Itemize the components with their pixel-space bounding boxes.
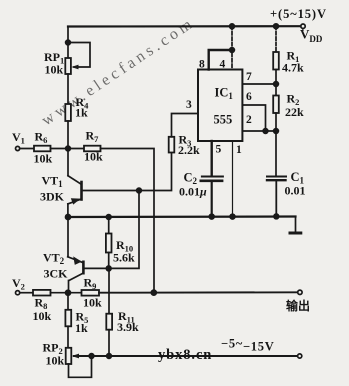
wire R8 to node E2 (51, 292, 82, 294)
svg-text:1: 1 (236, 144, 242, 156)
terminal V1 (16, 146, 20, 150)
wire pin 7 lead (242, 83, 276, 85)
svg-text:6: 6 (246, 91, 252, 103)
svg-text:+(5~15)V: +(5~15)V (270, 7, 327, 21)
node junction pin7/R1/R2 (274, 82, 279, 87)
resistor R9 (82, 290, 100, 296)
node junction VT1 emitter (66, 215, 71, 220)
capacitor C2 (201, 177, 223, 217)
transistor VT1 (68, 176, 82, 217)
svg-text:10k: 10k (83, 296, 102, 310)
wire R6 to node B1 (51, 148, 85, 150)
wire pin 5 lead (210, 141, 212, 176)
wire node B1 down to VT1 (67, 149, 69, 176)
svg-text:5: 5 (216, 144, 222, 156)
wire RP1 wiper loop (68, 43, 90, 68)
wire R5 to RP2 (67, 326, 69, 348)
node junction rail drop (230, 24, 235, 29)
resistor R2 (273, 96, 279, 114)
terminal VDD (301, 24, 305, 28)
svg-text:3DK: 3DK (40, 190, 65, 204)
node junction pin1 ground (230, 214, 235, 219)
terminal V2 (16, 291, 20, 295)
wire R3 top to pin 3 (172, 114, 199, 137)
svg-text:3CK: 3CK (44, 267, 69, 281)
wire emitter node down to VT2 (67, 217, 69, 257)
node junction R11 bottom (107, 354, 112, 359)
svg-text:7: 7 (246, 71, 252, 83)
resistor R10 (106, 217, 112, 268)
resistor R8 (33, 290, 51, 296)
node junction R10 bottom (106, 266, 111, 271)
wire R1 top lead from rail (275, 26, 277, 52)
svg-text:1k: 1k (75, 321, 88, 335)
resistor R11 (106, 314, 112, 330)
svg-text:2: 2 (246, 114, 252, 126)
terminal output (298, 290, 302, 294)
wire node E2 down to R5 (67, 293, 69, 310)
svg-text:3: 3 (186, 99, 192, 111)
wire R2 to pin2 node and C1 (275, 113, 277, 176)
resistor R1 (273, 52, 279, 70)
resistor R5 (65, 310, 71, 327)
capacitor C1 (267, 177, 286, 217)
svg-text:3.9k: 3.9k (117, 320, 139, 334)
wire RP1 to R4 (67, 74, 69, 104)
node junction pin4/8 (230, 48, 235, 53)
node junction pin2/R2 (274, 129, 279, 134)
wire RP2 bottom loop (69, 356, 92, 377)
wire top VDD rail (68, 25, 301, 27)
svg-text:0.01μ: 0.01μ (179, 185, 207, 199)
svg-text:5.6k: 5.6k (113, 251, 135, 265)
node junction rail R1 (274, 24, 279, 29)
resistor R4 (65, 104, 71, 121)
node junction E2 (66, 290, 71, 295)
wire pin 2 lead (242, 130, 276, 132)
svg-text:555: 555 (214, 113, 233, 127)
node junction output row (151, 290, 156, 295)
svg-text:10k: 10k (84, 150, 103, 164)
wire VDD left drop to RP1 (67, 27, 69, 59)
svg-text:输出: 输出 (286, 298, 310, 313)
resistor R6 (34, 146, 51, 152)
wire V2 to R8 (20, 292, 33, 294)
watermark www.elecfans.com (39, 14, 198, 129)
wire RP2 wiper to bottom rail (74, 355, 298, 357)
wire pin 6 lead (242, 105, 265, 131)
svg-text:10k: 10k (33, 309, 52, 323)
svg-text:22k: 22k (285, 105, 304, 119)
ground symbol (290, 217, 301, 234)
wire VT1 base line to R3 (83, 153, 172, 191)
node junction C2 ground (209, 214, 214, 219)
wire pin 8 lead (209, 50, 232, 70)
wiper arrow RP1 (71, 65, 78, 70)
ground line (68, 215, 296, 218)
label VDD tick (301, 29, 304, 33)
node junction pin6/pin2 (263, 129, 268, 134)
svg-text:10k: 10k (45, 63, 64, 77)
svg-text:10k: 10k (34, 152, 53, 166)
node junction C1 ground (274, 214, 279, 219)
node junction RP1 top (66, 40, 71, 45)
node junction base line / VT2 collector riser (137, 188, 142, 193)
transistor VT2 (68, 256, 84, 292)
svg-text:1k: 1k (75, 106, 88, 120)
svg-text:4: 4 (220, 59, 226, 71)
svg-text:ybx8.cn: ybx8.cn (158, 347, 212, 363)
wire VT2 base line to riser (85, 191, 139, 269)
op-amp U1 555 IC box (198, 70, 242, 142)
node junction R10 top (106, 215, 111, 220)
potentiometer RP2 (66, 348, 72, 364)
wire R9 to output terminal (99, 291, 298, 293)
wire R1 to pin7 node (275, 70, 277, 96)
wire R4 to node B1 (67, 121, 69, 149)
terminal negative supply (298, 354, 302, 358)
svg-text:8: 8 (199, 59, 205, 71)
wire pin 1 lead (232, 141, 234, 217)
wire R11 to bottom rail (108, 330, 110, 356)
node junction B1 (66, 146, 71, 151)
svg-text:0.01: 0.01 (285, 184, 306, 198)
wire pin 4 lead from rail (231, 26, 233, 69)
resistor R3 (169, 137, 175, 153)
wire V1 to R6 (20, 148, 34, 150)
svg-text:2.2k: 2.2k (178, 143, 200, 157)
svg-text:10k: 10k (46, 354, 65, 368)
wiper arrow RP2 (72, 354, 79, 359)
wire R7 right then down to output row (101, 149, 155, 293)
svg-text:4.7k: 4.7k (282, 61, 304, 75)
wire R10 bottom node down to R11 (108, 268, 110, 313)
resistor R7 (84, 146, 101, 152)
node junction RP2 loop (89, 354, 94, 359)
potentiometer RP1 (65, 58, 71, 74)
